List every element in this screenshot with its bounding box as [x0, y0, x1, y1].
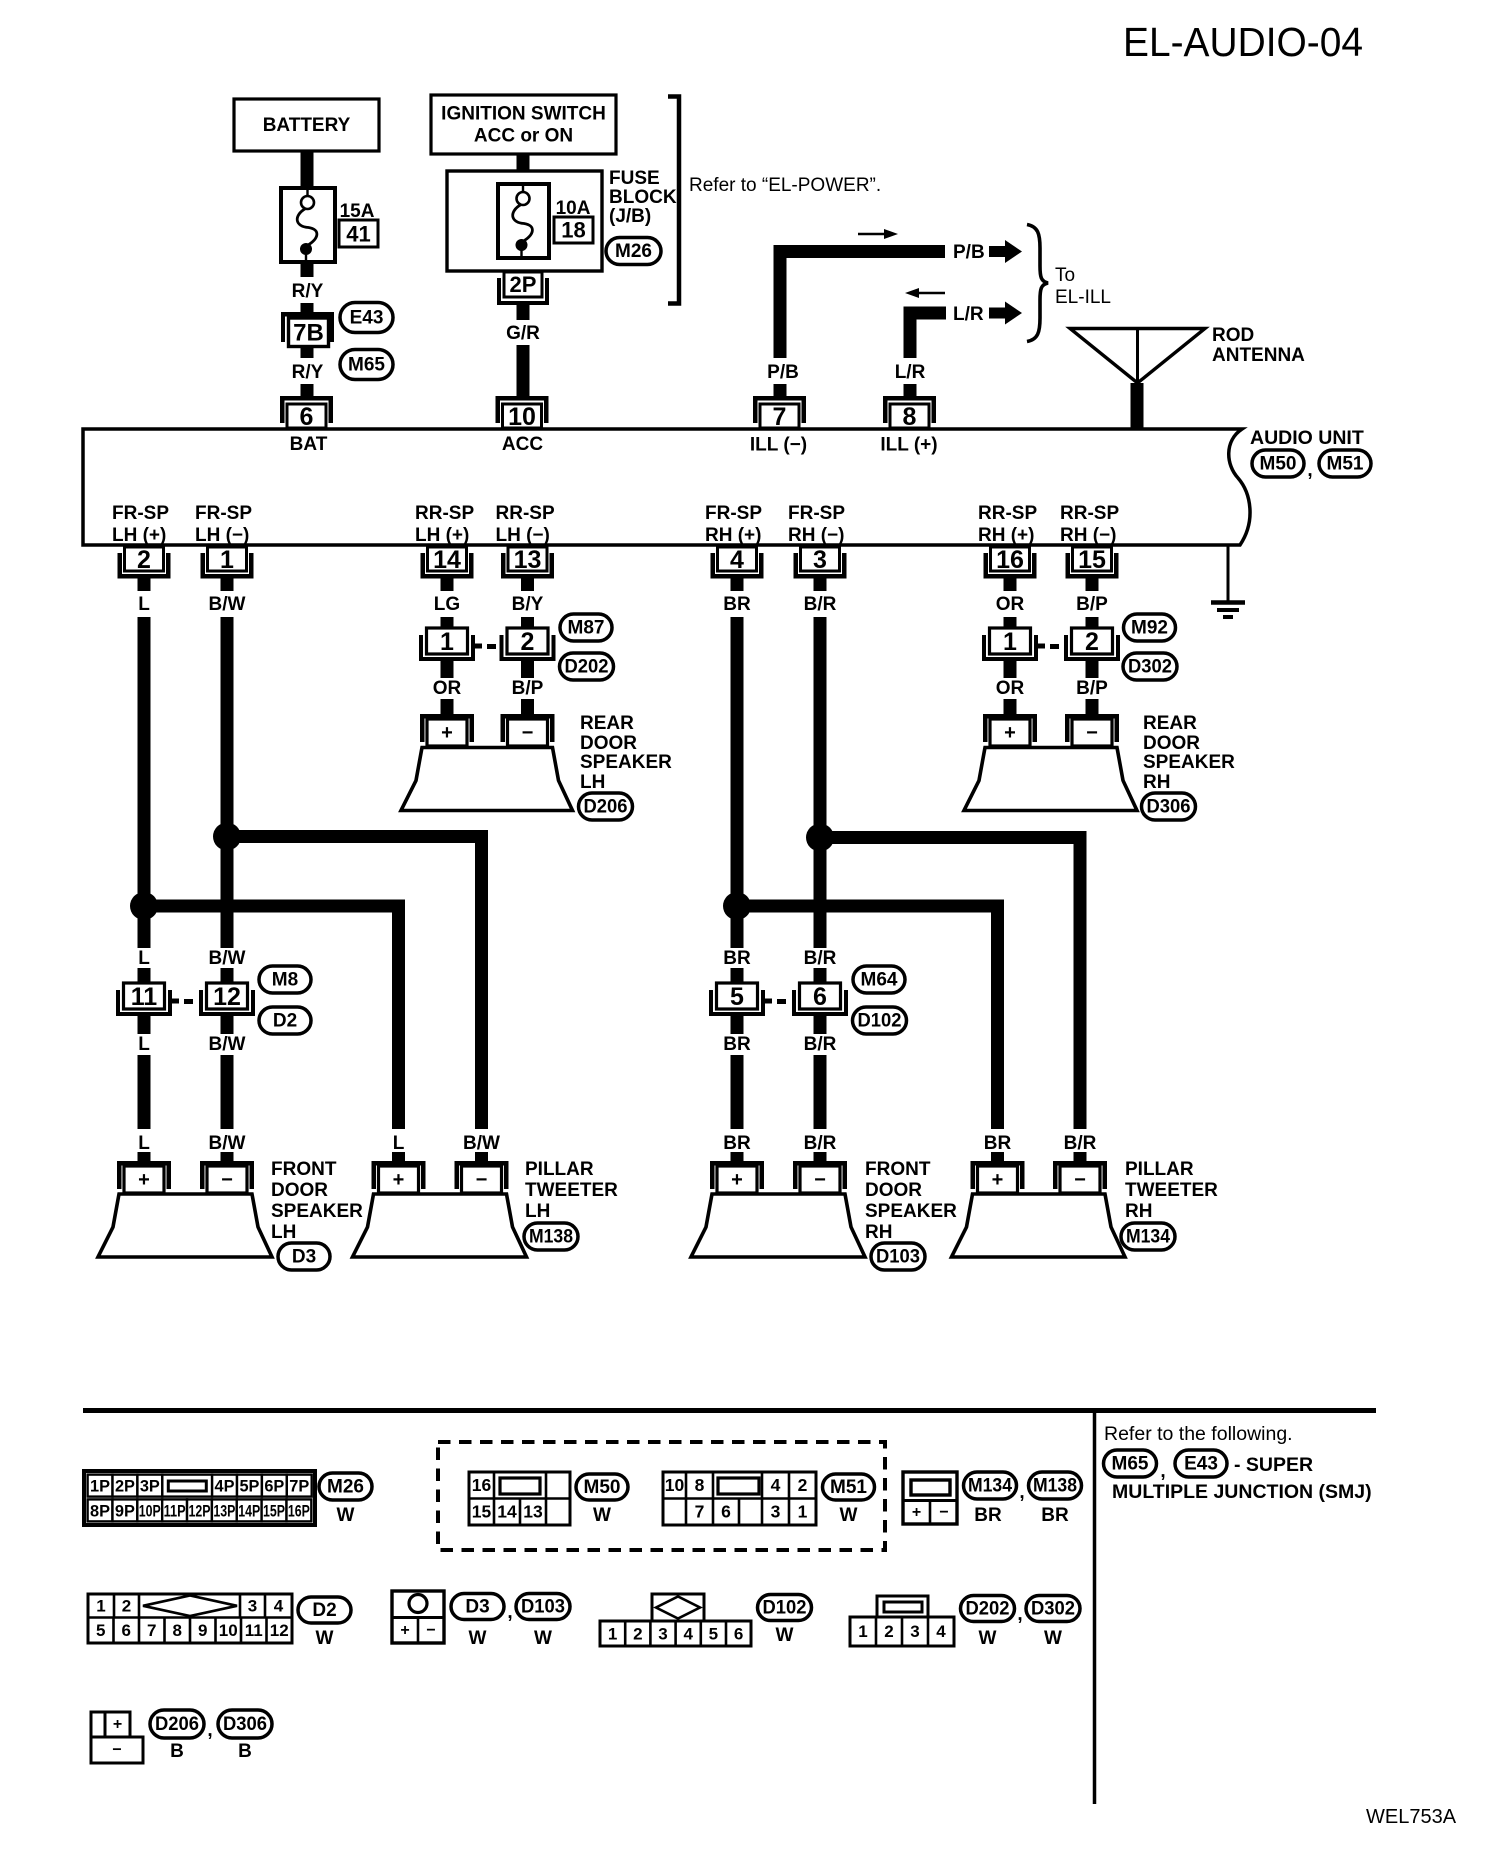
- pin 13 RR-SP LH (&#8722;): [508, 547, 547, 571]
- svg-text:B/R: B/R: [804, 594, 837, 615]
- ref M65: [340, 350, 393, 380]
- svg-text:SPEAKER: SPEAKER: [580, 752, 672, 773]
- wire stub pin 16: [1004, 578, 1017, 591]
- wire L main: [138, 617, 151, 948]
- svg-text:TWEETER: TWEETER: [525, 1180, 618, 1201]
- wire branch L to tweeter LH +: [144, 906, 399, 1129]
- svg-text:FRONT: FRONT: [865, 1159, 931, 1180]
- svg-text:3: 3: [910, 1622, 919, 1641]
- svg-text:D302: D302: [1031, 1599, 1075, 1620]
- junction B/W: [213, 823, 241, 851]
- front door speaker RH: [691, 1194, 865, 1257]
- junction B/R: [806, 824, 834, 852]
- svg-text:M50: M50: [584, 1477, 621, 1498]
- svg-text:2: 2: [884, 1622, 893, 1641]
- ref D202: [560, 653, 614, 680]
- svg-text:8: 8: [903, 403, 917, 431]
- svg-text:3: 3: [813, 546, 827, 574]
- svg-text:B/R: B/R: [804, 948, 837, 969]
- pin 4 FR-SP RH (+): [718, 547, 757, 571]
- ground G1: [1227, 545, 1230, 602]
- svg-text:R/Y: R/Y: [292, 281, 324, 302]
- svg-text:3: 3: [771, 1502, 781, 1522]
- svg-text:OR: OR: [433, 678, 462, 699]
- svg-text:5: 5: [96, 1621, 105, 1640]
- wire B/W main: [221, 617, 234, 948]
- wire stub pin 1: [221, 578, 234, 591]
- svg-text:BR: BR: [723, 1034, 751, 1055]
- wire stubs to pair 5/6: [731, 968, 744, 984]
- ref M92: [1124, 614, 1176, 641]
- front door speaker LH: [98, 1194, 272, 1257]
- svg-text:3P: 3P: [140, 1477, 160, 1496]
- pillar tweeter LH: [353, 1194, 527, 1257]
- wire LG stub: [441, 617, 454, 628]
- svg-text:D306: D306: [1147, 797, 1191, 818]
- wire stub pin 4: [731, 578, 744, 591]
- svg-text:,: ,: [207, 1720, 212, 1741]
- svg-text:IGNITION SWITCH: IGNITION SWITCH: [441, 104, 606, 125]
- ref D302: [1123, 653, 1177, 680]
- svg-text:D206: D206: [584, 797, 628, 818]
- svg-text:ILL (−): ILL (−): [750, 435, 807, 456]
- terminal stubs: [138, 1152, 151, 1163]
- svg-text:−: −: [939, 1504, 948, 1521]
- svg-text:−: −: [221, 1169, 233, 1191]
- pin 10 ACC: [496, 396, 549, 401]
- svg-text:REAR: REAR: [580, 713, 634, 734]
- svg-text:ACC: ACC: [502, 434, 543, 455]
- ref M134 oval bottom: [964, 1472, 1017, 1499]
- svg-text:FUSE: FUSE: [609, 168, 660, 189]
- svg-text:+: +: [731, 1169, 743, 1191]
- svg-text:EL-AUDIO-04: EL-AUDIO-04: [1123, 19, 1363, 65]
- ref D103 bottom: [516, 1594, 570, 1620]
- svg-text:PILLAR: PILLAR: [525, 1159, 594, 1180]
- rear door speaker RH: [964, 748, 1137, 811]
- ref D102 oval mid: [853, 1007, 907, 1034]
- svg-text:G/R: G/R: [506, 323, 540, 344]
- wire R/Y stub below 7B: [301, 347, 314, 359]
- svg-text:W: W: [316, 1628, 334, 1649]
- svg-text:M138: M138: [1033, 1476, 1077, 1497]
- svg-text:4: 4: [274, 1596, 284, 1615]
- pin 15 RR-SP RH (&#8722;): [1073, 547, 1112, 571]
- ref M26: [606, 238, 661, 265]
- svg-text:2: 2: [798, 1475, 808, 1495]
- rear door speaker LH: [401, 748, 573, 811]
- terminal + rear LH: [420, 714, 474, 719]
- svg-text:+: +: [912, 1504, 921, 1521]
- terminal - front RH: [793, 1161, 847, 1166]
- pin 7 ILL(-): [753, 396, 806, 401]
- junction BR: [723, 892, 751, 920]
- wire branch B/R to tweeter RH -: [820, 838, 1080, 1130]
- fuse F18 10A: [498, 184, 549, 258]
- svg-text:2: 2: [122, 1596, 131, 1615]
- ref D2 oval bottom: [298, 1597, 351, 1623]
- svg-text:W: W: [469, 1628, 487, 1649]
- svg-text:DOOR: DOOR: [865, 1180, 922, 1201]
- svg-text:RH: RH: [865, 1222, 892, 1243]
- svg-text:LH (+): LH (+): [415, 525, 469, 546]
- svg-text:+: +: [441, 722, 453, 744]
- svg-text:L/R: L/R: [895, 362, 926, 383]
- wire ignition to fuse block: [517, 154, 530, 173]
- svg-text:D202: D202: [565, 657, 609, 678]
- svg-text:B/P: B/P: [512, 678, 544, 699]
- separator line: [83, 1408, 1376, 1413]
- svg-text:W: W: [840, 1505, 858, 1526]
- svg-text:10: 10: [508, 403, 536, 431]
- terminal - front LH: [200, 1161, 254, 1166]
- svg-text:10P: 10P: [139, 1502, 161, 1521]
- svg-text:−: −: [476, 1169, 488, 1191]
- svg-text:14: 14: [497, 1502, 517, 1522]
- svg-text:6: 6: [721, 1502, 731, 1522]
- ref D302 bottom: [1026, 1596, 1080, 1622]
- ref M50: [1252, 450, 1304, 477]
- svg-text:12: 12: [270, 1621, 289, 1640]
- pin 16 RR-SP RH (+): [991, 547, 1030, 571]
- pin 3 FR-SP RH (&#8722;): [801, 547, 840, 571]
- svg-text:−: −: [112, 1742, 121, 1759]
- svg-text:TWEETER: TWEETER: [1125, 1180, 1218, 1201]
- svg-text:7P: 7P: [289, 1477, 309, 1496]
- wire BR main: [731, 617, 744, 948]
- connector face M50: [469, 1472, 570, 1525]
- svg-text:9: 9: [198, 1621, 207, 1640]
- wire stub pin 14: [441, 578, 454, 591]
- connector pair 1/2 M87/D202: [419, 635, 423, 661]
- svg-text:11P: 11P: [164, 1502, 186, 1521]
- pin 6 BAT: [280, 396, 333, 401]
- wire branch B/W to tweeter LH -: [227, 837, 482, 1130]
- svg-text:−: −: [522, 722, 534, 744]
- svg-text:M26: M26: [327, 1477, 364, 1498]
- svg-text:L/R: L/R: [953, 304, 984, 325]
- terminal - tweeter LH: [455, 1161, 509, 1166]
- ref M138 oval bottom: [1029, 1472, 1082, 1499]
- svg-text:1: 1: [858, 1622, 867, 1641]
- ref M50 oval bottom: [576, 1474, 628, 1500]
- svg-text:1: 1: [96, 1596, 105, 1615]
- separator vertical line: [1093, 1411, 1097, 1804]
- wire stub pin 13: [521, 578, 534, 591]
- fuse block J/B box: [447, 171, 602, 271]
- svg-text:ILL (+): ILL (+): [880, 435, 937, 456]
- wire branch BR to tweeter RH +: [737, 906, 998, 1129]
- fat arrow P/B: [989, 246, 1005, 257]
- connector face M134/M138: [903, 1472, 957, 1524]
- svg-text:B/R: B/R: [1064, 1133, 1097, 1154]
- svg-text:16: 16: [996, 546, 1024, 574]
- svg-text:10: 10: [219, 1621, 238, 1640]
- ref M26 oval bottom: [319, 1473, 372, 1500]
- svg-text:5P: 5P: [239, 1477, 259, 1496]
- connector pair 11/12 M8/D2: [116, 990, 120, 1016]
- ref D3 oval: [278, 1243, 330, 1270]
- svg-text:B/W: B/W: [209, 1034, 246, 1055]
- svg-text:13: 13: [514, 546, 542, 574]
- svg-text:,: ,: [507, 1602, 512, 1623]
- svg-text:RH (+): RH (+): [978, 525, 1034, 546]
- svg-text:41: 41: [346, 222, 370, 247]
- svg-text:+: +: [138, 1169, 150, 1191]
- wire P/B stub to pin 7: [774, 384, 787, 397]
- svg-text:L: L: [138, 594, 150, 615]
- svg-text:11: 11: [131, 983, 158, 1011]
- svg-text:RH (+): RH (+): [705, 525, 761, 546]
- svg-text:BR: BR: [723, 948, 751, 969]
- svg-text:M138: M138: [529, 1227, 573, 1248]
- svg-text:P/B: P/B: [953, 242, 985, 263]
- terminal + rear RH: [983, 714, 1037, 719]
- wire L/R stub to pin 8: [904, 384, 917, 397]
- ref D202 bottom: [961, 1596, 1015, 1622]
- svg-text:D2: D2: [273, 1011, 297, 1032]
- svg-text:W: W: [593, 1505, 611, 1526]
- ref M51: [1319, 450, 1371, 477]
- ref E43: [340, 303, 393, 333]
- connector 2P: [504, 272, 542, 297]
- terminal - rear RH: [1065, 714, 1119, 719]
- svg-text:5: 5: [709, 1625, 718, 1644]
- svg-text:Refer to “EL-POWER”.: Refer to “EL-POWER”.: [689, 175, 881, 196]
- svg-text:9P: 9P: [115, 1502, 135, 1521]
- terminal - tweeter RH: [1053, 1161, 1107, 1166]
- svg-text:7: 7: [695, 1502, 705, 1522]
- svg-text:DOOR: DOOR: [271, 1180, 328, 1201]
- pin 2 FR-SP LH (+): [125, 547, 164, 571]
- terminal + tweeter RH: [971, 1161, 1025, 1166]
- terminal + front RH: [710, 1161, 764, 1166]
- svg-text:10: 10: [665, 1475, 685, 1495]
- svg-text:15: 15: [1078, 546, 1106, 574]
- svg-text:E43: E43: [350, 308, 384, 329]
- ref M134: [1121, 1223, 1175, 1250]
- ref D206: [579, 793, 633, 820]
- wire G/R stub: [517, 305, 530, 320]
- svg-text:SPEAKER: SPEAKER: [865, 1201, 957, 1222]
- ref D3 bottom: [451, 1594, 504, 1620]
- connector face D202/D302: [850, 1617, 954, 1646]
- svg-text:E43: E43: [1184, 1454, 1218, 1475]
- svg-text:RH: RH: [1125, 1201, 1152, 1222]
- svg-text:R/Y: R/Y: [292, 362, 324, 383]
- svg-text:D102: D102: [858, 1011, 902, 1032]
- svg-text:W: W: [337, 1505, 355, 1526]
- svg-text:FR-SP: FR-SP: [112, 503, 169, 524]
- terminal + front LH: [117, 1161, 171, 1166]
- wire stub pin 15: [1086, 578, 1099, 591]
- wire stubs to pair 11/12: [138, 968, 151, 984]
- svg-text:D206: D206: [155, 1714, 199, 1735]
- svg-text:OR: OR: [996, 594, 1025, 615]
- svg-text:6: 6: [813, 983, 827, 1011]
- svg-text:M51: M51: [830, 1477, 867, 1498]
- pin 14 RR-SP LH (+): [428, 547, 467, 571]
- svg-text:M50: M50: [1260, 454, 1297, 475]
- wires below pairs: [138, 1016, 151, 1034]
- ref M64: [853, 966, 905, 993]
- svg-text:3: 3: [658, 1625, 667, 1644]
- svg-text:D3: D3: [292, 1247, 316, 1268]
- svg-text:BLOCK: BLOCK: [609, 187, 677, 208]
- svg-text:5: 5: [730, 983, 744, 1011]
- svg-text:B/R: B/R: [804, 1034, 837, 1055]
- svg-text:RH (−): RH (−): [1060, 525, 1116, 546]
- svg-text:M134: M134: [1126, 1227, 1170, 1248]
- svg-text:,: ,: [1019, 1482, 1024, 1503]
- svg-text:BR: BR: [974, 1505, 1002, 1526]
- svg-text:W: W: [776, 1625, 794, 1646]
- svg-text:M134: M134: [968, 1476, 1012, 1497]
- svg-text:1: 1: [440, 628, 454, 656]
- svg-text:LH (−): LH (−): [496, 525, 550, 546]
- svg-text:L: L: [138, 1133, 150, 1154]
- wire B/R main: [814, 617, 827, 948]
- wire OR stub below RH: [1004, 661, 1017, 678]
- pin 8 ILL(+): [883, 396, 936, 401]
- svg-text:WEL753A: WEL753A: [1366, 1806, 1457, 1828]
- svg-text:18: 18: [561, 218, 585, 243]
- svg-text:DOOR: DOOR: [580, 733, 637, 754]
- svg-text:ANTENNA: ANTENNA: [1212, 345, 1305, 366]
- svg-text:BR: BR: [723, 594, 751, 615]
- svg-text:2: 2: [633, 1625, 642, 1644]
- svg-text:LG: LG: [434, 594, 460, 615]
- svg-text:DOOR: DOOR: [1143, 733, 1200, 754]
- wire stub pin 3: [814, 578, 827, 591]
- svg-text:M87: M87: [568, 618, 605, 639]
- svg-text:+: +: [393, 1169, 405, 1191]
- connector face M26: [84, 1471, 315, 1525]
- svg-text:RR-SP: RR-SP: [415, 503, 474, 524]
- svg-text:D2: D2: [312, 1600, 336, 1621]
- wire P/B to EL-ILL: [780, 252, 945, 359]
- wire B/P stub below RH: [1086, 661, 1099, 678]
- svg-text:2P: 2P: [115, 1477, 135, 1496]
- svg-text:2P: 2P: [510, 272, 537, 297]
- svg-text:3: 3: [248, 1596, 257, 1615]
- svg-text:14P: 14P: [238, 1502, 260, 1521]
- wire B/Y stub: [521, 617, 534, 628]
- svg-text:RR-SP: RR-SP: [978, 503, 1037, 524]
- svg-text:4: 4: [730, 546, 744, 574]
- svg-text:W: W: [1044, 1628, 1062, 1649]
- svg-text:M51: M51: [1327, 454, 1364, 475]
- svg-text:13: 13: [523, 1502, 543, 1522]
- svg-text:2: 2: [1085, 628, 1099, 656]
- svg-text:,: ,: [1160, 1461, 1165, 1482]
- svg-text:RR-SP: RR-SP: [496, 503, 555, 524]
- svg-text:D302: D302: [1128, 657, 1172, 678]
- ref M138: [524, 1223, 578, 1250]
- svg-text:B/W: B/W: [209, 594, 246, 615]
- svg-text:8P: 8P: [90, 1502, 110, 1521]
- svg-text:B/W: B/W: [209, 1133, 246, 1154]
- svg-text:−: −: [814, 1169, 826, 1191]
- svg-text:B: B: [170, 1741, 184, 1762]
- svg-text:11: 11: [245, 1621, 263, 1640]
- svg-text:B/P: B/P: [1076, 594, 1108, 615]
- wire G/R to pin 10: [517, 345, 530, 397]
- fuse number box 18: [554, 217, 593, 243]
- ref D2 oval: [259, 1007, 311, 1034]
- brace to EL-ILL: [1027, 225, 1048, 342]
- svg-text:−: −: [1086, 722, 1098, 744]
- svg-text:−: −: [426, 1622, 435, 1639]
- svg-text:M64: M64: [861, 970, 898, 991]
- svg-text:M65: M65: [348, 355, 385, 376]
- svg-text:BAT: BAT: [290, 434, 328, 455]
- svg-text:4P: 4P: [215, 1477, 235, 1496]
- svg-text:+: +: [113, 1716, 122, 1733]
- ref D103 oval: [871, 1243, 925, 1270]
- svg-text:LH (−): LH (−): [195, 525, 249, 546]
- svg-text:(J/B): (J/B): [609, 206, 651, 227]
- wire stub pin 2: [138, 578, 151, 591]
- connector face D206/D306: [91, 1712, 105, 1737]
- ref M87: [560, 614, 612, 641]
- svg-text:1: 1: [220, 546, 234, 574]
- arrow direction P/B: [858, 233, 886, 236]
- svg-text:FR-SP: FR-SP: [788, 503, 845, 524]
- ref E43 bottom: [1175, 1450, 1227, 1477]
- connector pair 5/6 M64/D102: [709, 990, 713, 1016]
- svg-text:REAR: REAR: [1143, 713, 1197, 734]
- svg-text:To: To: [1055, 265, 1075, 286]
- dashed group box M50 M51: [438, 1442, 885, 1550]
- svg-text:SPEAKER: SPEAKER: [271, 1201, 363, 1222]
- svg-text:4: 4: [683, 1625, 693, 1644]
- svg-text:L: L: [138, 1034, 150, 1055]
- svg-text:7: 7: [773, 403, 787, 431]
- svg-text:D202: D202: [966, 1599, 1010, 1620]
- svg-text:SPEAKER: SPEAKER: [1143, 752, 1235, 773]
- ref D306 bottom: [218, 1710, 272, 1738]
- svg-text:15: 15: [472, 1502, 492, 1522]
- svg-text:D103: D103: [521, 1597, 565, 1618]
- ignition switch SW1: [431, 95, 616, 154]
- svg-text:M8: M8: [272, 970, 298, 991]
- svg-text:−: −: [1074, 1169, 1086, 1191]
- svg-text:12P: 12P: [188, 1502, 210, 1521]
- svg-text:15P: 15P: [263, 1502, 285, 1521]
- wire OR stub above: [441, 661, 454, 678]
- svg-text:B/W: B/W: [463, 1133, 500, 1154]
- svg-text:L: L: [138, 948, 150, 969]
- svg-text:12: 12: [213, 983, 241, 1011]
- svg-text:+: +: [400, 1622, 409, 1639]
- svg-text:BR: BR: [723, 1133, 751, 1154]
- svg-text:+: +: [1004, 722, 1016, 744]
- svg-text:D103: D103: [876, 1247, 920, 1268]
- svg-text:6: 6: [734, 1625, 743, 1644]
- wire B/P stub below: [521, 699, 534, 714]
- svg-text:7B: 7B: [293, 320, 324, 347]
- connector face M51: [663, 1472, 816, 1525]
- wire B/P stub RH: [1086, 617, 1099, 628]
- wire OR stub RH: [1004, 617, 1017, 628]
- svg-text:LH: LH: [525, 1201, 550, 1222]
- svg-text:BR: BR: [1041, 1505, 1069, 1526]
- svg-text:1: 1: [1003, 628, 1017, 656]
- fat arrow L/R: [989, 308, 1005, 319]
- svg-text:M92: M92: [1131, 618, 1168, 639]
- svg-text:AUDIO UNIT: AUDIO UNIT: [1250, 427, 1364, 449]
